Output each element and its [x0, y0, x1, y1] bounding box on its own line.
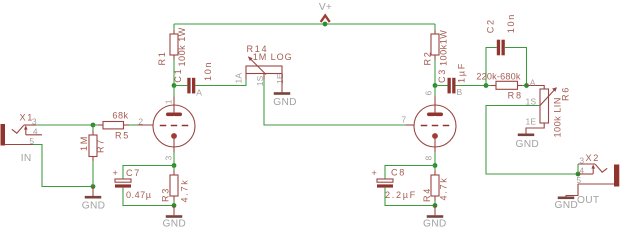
svg-text:R2: R2 [423, 50, 433, 65]
svg-text:4.7k: 4.7k [180, 179, 190, 203]
wire cathode to node K2 [434, 152, 436, 166]
svg-text:X2: X2 [586, 153, 601, 163]
svg-text:1S: 1S [526, 96, 537, 106]
capacitor C2 [486, 13, 527, 85]
resistor R5 [93, 111, 130, 141]
junction ground node [91, 184, 96, 189]
svg-text:100k LIN: 100k LIN [553, 97, 563, 137]
svg-text:GND: GND [555, 200, 579, 211]
svg-text:10n: 10n [203, 61, 213, 81]
junction K2 bottom [433, 203, 438, 208]
junction anode A [172, 83, 177, 88]
svg-text:3: 3 [163, 156, 173, 161]
pin 6 anode [434, 97, 436, 115]
svg-text:10n: 10n [506, 13, 516, 33]
junction K1 [172, 163, 177, 168]
svg-text:3: 3 [579, 156, 584, 166]
ground GND (input) [82, 187, 106, 212]
svg-text:100k1W: 100k1W [439, 30, 449, 66]
svg-text:C7: C7 [126, 168, 141, 178]
pin 7 grid [406, 124, 414, 126]
wire R5 to tube1 grid pin [129, 124, 137, 126]
svg-text:R8: R8 [508, 90, 523, 100]
svg-text:C3: C3 [437, 68, 447, 83]
ground GND (output) [555, 197, 579, 212]
pin 1 anode [173, 97, 175, 115]
ground GND (cathode 2) [423, 206, 447, 230]
svg-text:1M: 1M [79, 135, 89, 151]
resistor R7 [79, 125, 105, 187]
resistor R1 [157, 24, 187, 67]
triode U1 (tube 1) [137, 97, 195, 161]
wire R1 to anode node [173, 60, 175, 86]
ground GND (cathode 1) [163, 206, 187, 230]
svg-text:1E: 1E [526, 116, 537, 126]
supply V+ [319, 2, 332, 22]
svg-text:R1: R1 [157, 50, 167, 65]
wire C3 to tone node [456, 85, 487, 87]
svg-text:0.47µ: 0.47µ [126, 190, 152, 200]
svg-text:4.7k: 4.7k [439, 177, 449, 201]
capacitor C8 [372, 166, 436, 206]
ground GND (R14) [273, 74, 297, 108]
junction tone left [484, 83, 489, 88]
resistor R8 [476, 71, 526, 100]
svg-text:B: B [457, 87, 463, 97]
svg-text:+: + [372, 168, 378, 178]
wire C1 to R14 [195, 80, 246, 86]
triode U2 (tube 2) [401, 91, 456, 161]
svg-text:R4: R4 [422, 187, 432, 202]
resistor R3 [160, 166, 189, 206]
svg-text:OUT: OUT [577, 195, 599, 206]
potentiometer R14 [234, 44, 293, 86]
svg-text:A: A [196, 87, 202, 97]
junction output node [576, 172, 581, 177]
svg-text:GND: GND [423, 218, 447, 229]
ground GND (R6) [516, 134, 540, 150]
wire anode node B to tube2 [434, 86, 436, 97]
junction K1 bottom [172, 203, 177, 208]
svg-text:1A: 1A [234, 73, 244, 84]
wire output tie 3-4 [577, 164, 579, 174]
wire V+ rail [174, 23, 435, 25]
svg-text:8: 8 [423, 156, 433, 161]
junction K2 [433, 163, 438, 168]
svg-text:IN: IN [21, 153, 32, 164]
wire X1 sleeve to ground rail [33, 145, 93, 187]
wire R14 wiper to tube2 grid [264, 80, 406, 126]
svg-text:R5: R5 [115, 130, 130, 140]
svg-text:GND: GND [82, 201, 106, 212]
svg-text:1: 1 [163, 99, 173, 104]
wire cathode to node K1 [173, 152, 175, 166]
svg-text:C8: C8 [391, 168, 406, 178]
svg-text:4: 4 [33, 126, 38, 136]
svg-text:1M LOG: 1M LOG [253, 52, 293, 62]
svg-text:R7: R7 [95, 138, 105, 153]
svg-text:GND: GND [516, 139, 540, 150]
svg-text:100k 1W: 100k 1W [177, 27, 187, 66]
potentiometer R6 [526, 77, 571, 137]
svg-text:V+: V+ [319, 2, 332, 13]
wire R2 to anode node B [434, 60, 436, 86]
svg-text:R3: R3 [160, 187, 170, 202]
svg-text:68k: 68k [112, 111, 128, 121]
resistor R4 [422, 166, 449, 206]
svg-text:1E: 1E [275, 73, 285, 84]
svg-text:2.2µF: 2.2µF [385, 190, 417, 200]
cathode [171, 133, 177, 139]
svg-text:C1: C1 [173, 68, 183, 83]
junction tone right [524, 83, 529, 88]
junction V+ [323, 22, 328, 27]
svg-text:C2: C2 [486, 18, 496, 33]
svg-text:7: 7 [401, 114, 406, 124]
connector X2 [576, 153, 619, 206]
svg-text:+: + [113, 168, 119, 178]
junction anode B [433, 83, 438, 88]
junction grid node [91, 123, 96, 128]
svg-text:GND: GND [273, 97, 297, 108]
wire X1 tip to grid node [36, 124, 93, 126]
connector X1 [1, 113, 43, 165]
capacitor C3 [435, 62, 467, 93]
wire X2 sleeve to ground [566, 184, 578, 197]
pin 2 grid [137, 124, 153, 126]
svg-text:1µF: 1µF [457, 62, 467, 83]
svg-text:2: 2 [138, 117, 143, 127]
svg-text:5: 5 [576, 175, 581, 185]
wire anode node to tube1 [173, 86, 175, 97]
svg-text:220k-680k: 220k-680k [476, 71, 521, 81]
capacitor C1 [173, 61, 213, 94]
cathode [432, 133, 438, 139]
svg-text:GND: GND [163, 218, 187, 229]
capacitor C7 [113, 166, 175, 206]
wire R6 wiper to output [486, 106, 578, 175]
resistor R2 [423, 24, 449, 66]
svg-text:A: A [530, 77, 536, 87]
svg-text:6: 6 [423, 91, 433, 96]
